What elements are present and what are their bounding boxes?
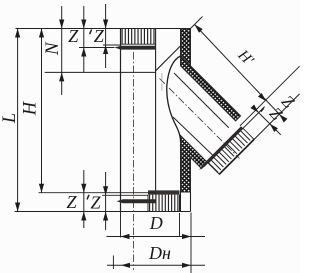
dimension L top arrow [15, 29, 20, 38]
branch upper shell band (crosshatch) [181, 56, 241, 121]
extension line at bottom nipple edge [179, 213, 181, 236]
svg-text:Z: Z [90, 192, 101, 212]
dimension Z bottom lower arrow [81, 212, 86, 221]
dimension Z' branch near arrow (outside) [250, 104, 258, 112]
svg-text:D: D [149, 213, 163, 233]
label Z' branch [261, 104, 287, 125]
svg-text:Dн: Dн [148, 243, 171, 263]
dimension Z top upper arrow [81, 20, 86, 29]
extension line at pennant plane [243, 107, 265, 129]
extension line Z' bottom [102, 194, 148, 196]
dimension D left arrow [121, 234, 130, 239]
short extension tick left of Dn [112, 256, 114, 270]
branch outlet edge [219, 139, 254, 174]
vertical dash-dot line [133, 52, 135, 270]
svg-text:Z: Z [94, 26, 105, 46]
dimension Z' bottom upper arrow [103, 186, 108, 195]
bottom nipple dark bar [148, 190, 180, 194]
branch lower shell band and right wall lower section (crosshatch) [181, 136, 208, 193]
svg-text:Z: Z [66, 192, 77, 212]
dimension Z top line [83, 6, 85, 72]
dimension Dn line [107, 264, 205, 266]
dimension Z' top line [105, 4, 107, 68]
pipe top edge line [16, 28, 191, 30]
svg-text:H: H [21, 100, 41, 116]
dimension Dn left arrow [121, 263, 130, 268]
branch axis dash-dot line [160, 79, 240, 159]
dimension Z' top lower arrow [103, 45, 108, 54]
dimension N line [61, 6, 63, 95]
dimension H top arrow [39, 29, 44, 38]
branch liner lower wall line [173, 117, 212, 155]
dimension L bottom arrow [15, 203, 20, 212]
saddle intersection curve [167, 56, 181, 142]
branch liner bead pennant [199, 126, 243, 170]
dimension H' near arrow [195, 25, 203, 33]
dimension Z' bottom lower arrow [103, 212, 108, 221]
branch liner upper wall line [174, 73, 229, 128]
extension line at shell cut plane [240, 66, 300, 126]
dimension H bottom arrow [39, 184, 44, 193]
dimension Z' branch line [254, 108, 281, 135]
extension line D right [190, 213, 192, 273]
dimension Z branch arrow (back) [279, 114, 287, 122]
bottom liner bead pennant [117, 199, 156, 203]
dimension Z' branch far arrow (outside) [270, 124, 278, 132]
dimension L line [17, 29, 19, 212]
branch nipple crimp hatch band [208, 128, 254, 174]
dimension N top arrow (outside) [59, 20, 64, 29]
extension line Z' top bottom [103, 44, 120, 46]
axis artifact dashes [161, 73, 163, 91]
dimension Dn right arrow [182, 263, 191, 268]
bore opening edge (upper 45deg line) [156, 46, 181, 71]
dimension Z' top upper arrow [103, 20, 108, 29]
extension line N bottom [45, 71, 156, 73]
extension line through pipe top-right corner [191, 17, 203, 29]
dimension Z' bottom line [105, 172, 107, 230]
pipe left outer wall [120, 29, 122, 212]
extension line D left [120, 212, 122, 238]
top socket mid line (hatch right edge) [155, 29, 157, 50]
extension line H bottom [39, 192, 156, 194]
dimension Z bottom upper arrow [81, 184, 86, 193]
dimension H' line [195, 25, 282, 117]
dimension H line [41, 29, 43, 193]
bottom nipple crimp hatch band [148, 195, 180, 212]
pipe bottom edge line (also bottom extension line) [15, 211, 191, 213]
right shell wall upper section (insulated, crosshatch) [181, 29, 191, 66]
svg-text:N: N [42, 41, 63, 56]
dimension D line [107, 236, 206, 238]
dimension H' far arrow [258, 93, 266, 101]
svg-text:Z: Z [68, 26, 79, 46]
right wall bottom plain section [181, 192, 191, 212]
dimension Z top lower arrow [81, 48, 86, 57]
extension line at outlet plane [253, 94, 299, 140]
label Z' bottom [87, 192, 101, 212]
inner mid line [155, 49, 157, 192]
top socket crimp hatch band [121, 29, 156, 45]
dimension D right arrow [182, 234, 191, 239]
dimension N bottom arrow (outside) [59, 72, 64, 81]
label Z' top [90, 26, 105, 46]
dimension Z bottom line [83, 170, 85, 228]
extension line Z top bottom [79, 47, 114, 49]
svg-text:L: L [0, 113, 20, 124]
top liner bead pennant [114, 46, 155, 50]
